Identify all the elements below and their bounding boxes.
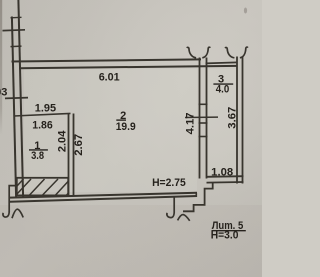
interior slightly lighter: [24, 69, 197, 192]
svg-text:4.0: 4.0: [216, 83, 230, 95]
wall between rooms 2 and 3 (vertical double line): [199, 58, 201, 179]
hatched wall segment under room 1: [17, 178, 68, 196]
svg-text:6.01: 6.01: [99, 72, 120, 84]
svg-text:4.17: 4.17: [184, 112, 196, 134]
svg-text:1.08: 1.08: [211, 166, 233, 178]
entrance steps: [183, 183, 213, 212]
wall bottom (double horizontal line): [10, 193, 197, 198]
svg-text:H=2.75: H=2.75: [152, 177, 186, 189]
tick on left wall y17: [11, 16, 22, 19]
svg-text:1.95: 1.95: [35, 102, 56, 114]
wall room1 right (double vertical line): [68, 114, 70, 197]
wall break symbol top of right wall: [225, 48, 234, 58]
wall left outer (double vertical line): [12, 17, 16, 198]
tick on left wall y30 (long): [3, 29, 26, 32]
svg-text:19.9: 19.9: [116, 121, 136, 133]
door opening crossbar y123: [199, 122, 208, 124]
svg-text:3.67: 3.67: [227, 107, 239, 129]
svg-text:2.67: 2.67: [73, 134, 85, 156]
wall top (double horizontal line): [12, 59, 202, 61]
wall right outer (double vertical line): [236, 57, 238, 184]
dimension tick through wall y117: [185, 116, 218, 118]
tick on left wall y98 (long): [5, 97, 28, 100]
svg-text:3.8: 3.8: [31, 150, 44, 162]
wall under 1.08 (double horizontal line): [207, 175, 244, 178]
door opening crossbar y104: [199, 103, 208, 105]
wall stub bottom left corner: [9, 186, 16, 212]
svg-text:03: 03: [0, 87, 7, 99]
scan shadow left edge: [0, 0, 2, 135]
svg-text:1.86: 1.86: [32, 120, 53, 132]
wall room1 top (single line): [14, 113, 71, 116]
break squiggle bottom left: [3, 212, 9, 218]
wall break symbol top of partition wall: [187, 47, 196, 57]
svg-text:2.04: 2.04: [57, 130, 69, 152]
door opening crossbar y136: [199, 136, 208, 138]
wall bottom end cap: [195, 193, 197, 197]
break squiggle bottom right: [167, 197, 174, 217]
tick on left wall y44: [11, 45, 22, 48]
scan speck top right: [244, 8, 247, 14]
svg-text:Н=3.0: Н=3.0: [211, 230, 239, 242]
darker lower outside band: [0, 205, 262, 277]
